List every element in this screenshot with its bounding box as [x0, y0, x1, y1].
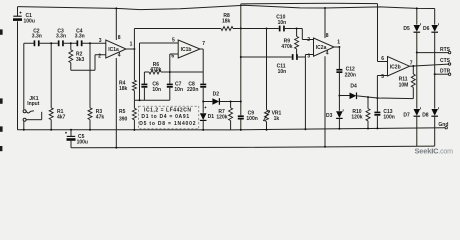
- wire RTS: [417, 52, 449, 54]
- svg-text:10n: 10n: [278, 20, 287, 26]
- junction R10 bottom: [367, 128, 369, 130]
- junction R1 bottom: [50, 129, 52, 131]
- junction VR1 tap: [266, 28, 268, 30]
- junction R3 bottom: [89, 129, 91, 131]
- svg-text:3: 3: [307, 53, 310, 59]
- wire jack to signal line: [23, 43, 25, 109]
- wire diode pump: [203, 101, 241, 103]
- wire IC1a pin4 to negative rail: [115, 58, 117, 148]
- svg-text:D5 to D8 = 1N4002: D5 to D8 = 1N4002: [139, 121, 196, 127]
- jack JK1: [23, 110, 42, 122]
- svg-text:D2: D2: [213, 92, 220, 98]
- preset VR1: [263, 29, 270, 130]
- resistor R4: [132, 29, 136, 101]
- wire IC1a pin8 to rail: [115, 8, 117, 40]
- wire jack sleeve to ground: [23, 121, 25, 129]
- svg-text:7: 7: [410, 60, 413, 66]
- svg-text:DTR: DTR: [440, 68, 451, 74]
- wire DTR: [435, 73, 449, 75]
- svg-text:120k: 120k: [351, 115, 362, 121]
- diode D7: [414, 107, 421, 146]
- junction R3 top: [89, 42, 91, 44]
- svg-text:5: 5: [172, 37, 175, 43]
- junction D5 rail: [416, 7, 418, 9]
- svg-text:120k: 120k: [216, 115, 227, 121]
- svg-text:1: 1: [130, 41, 133, 47]
- diode D1: [200, 102, 207, 130]
- junction R2 top: [70, 42, 72, 44]
- capacitor C9: [238, 115, 244, 129]
- wire detector: [339, 96, 413, 99]
- wire D5 D7 link: [416, 53, 418, 109]
- junction C13 bottom: [376, 127, 378, 129]
- wire IC2b pin5: [377, 76, 387, 99]
- junction R5 bottom: [133, 129, 135, 131]
- svg-text:4k7: 4k7: [57, 115, 66, 121]
- wire ground rail 0V: [18, 128, 446, 130]
- terminal DTR: [448, 73, 450, 75]
- svg-text:2: 2: [307, 37, 310, 43]
- capacitor C6: [141, 72, 147, 100]
- wire IC1b output down: [200, 49, 203, 72]
- wire left supply branch with C1: [17, 7, 19, 130]
- junction C7 R6 node: [169, 71, 171, 73]
- wire IC2b pin6: [378, 4, 388, 62]
- wire reference line: [240, 4, 242, 116]
- capacitor C4: [77, 40, 83, 46]
- svg-text:D7: D7: [403, 113, 410, 119]
- capacitor C2: [34, 40, 40, 46]
- svg-text:D3: D3: [326, 113, 333, 119]
- junction pump right: [240, 101, 242, 103]
- svg-text:3.3n: 3.3n: [75, 34, 85, 40]
- wire to IC2a pin2: [302, 29, 313, 40]
- wire C11 branch: [241, 56, 306, 58]
- wire IC2b output CTS: [410, 64, 449, 66]
- junction C13 top: [376, 97, 378, 99]
- svg-text:10n: 10n: [278, 69, 287, 75]
- resistor R11: [411, 66, 415, 99]
- svg-text:3.3n: 3.3n: [56, 34, 66, 40]
- junction D3 node: [338, 95, 340, 97]
- svg-text:100u: 100u: [24, 19, 35, 25]
- junction reference line: [240, 27, 242, 29]
- svg-text:3: 3: [99, 38, 102, 44]
- wire IC1b pin6: [170, 54, 178, 72]
- capacitor C5: [65, 130, 76, 148]
- junction IC2a pin8 rail: [324, 7, 326, 9]
- svg-text:6: 6: [381, 56, 384, 62]
- junction pump left: [202, 101, 204, 103]
- svg-text:2: 2: [98, 54, 101, 60]
- svg-text:470k: 470k: [281, 44, 292, 50]
- junction IC2a output: [338, 46, 340, 48]
- junction C11 left: [240, 56, 242, 58]
- terminal Gnd: [445, 127, 447, 129]
- resistor R6: [144, 70, 203, 74]
- svg-text:SeekIC.com: SeekIC.com: [415, 147, 454, 156]
- svg-text:IC1,2 = LF442CN: IC1,2 = LF442CN: [144, 108, 192, 114]
- junction C5 top: [70, 129, 72, 131]
- resistor R8: [134, 27, 278, 31]
- junction DTR: [434, 73, 436, 75]
- resistor R9: [295, 29, 299, 58]
- junction R11 top: [412, 65, 414, 67]
- op-amp IC2b: [388, 57, 410, 77]
- note box: [139, 106, 199, 129]
- junction VR1 bottom: [266, 129, 268, 131]
- svg-text:47k: 47k: [96, 115, 105, 121]
- svg-text:470k: 470k: [150, 67, 161, 73]
- capacitor C3: [58, 40, 64, 46]
- capacitor C10: [279, 26, 303, 32]
- svg-text:18k: 18k: [119, 86, 128, 92]
- svg-text:Gnd: Gnd: [438, 122, 448, 128]
- junction jack-ground: [23, 129, 25, 131]
- svg-text:D1 to D4 = 0A91: D1 to D4 = 0A91: [141, 114, 189, 120]
- wire R4 R5 node: [134, 99, 169, 101]
- wire IC2a pin4 to negative rail: [324, 56, 326, 147]
- svg-text:10n: 10n: [152, 87, 161, 93]
- diode D8: [431, 107, 438, 146]
- resistor R10: [366, 97, 370, 128]
- svg-text:100u: 100u: [77, 140, 88, 146]
- svg-text:100n: 100n: [246, 116, 257, 122]
- diode D2: [212, 98, 219, 105]
- svg-text:18k: 18k: [222, 19, 231, 25]
- diode D5: [414, 8, 421, 52]
- diode D3: [336, 96, 343, 129]
- svg-text:IC1b: IC1b: [181, 47, 192, 53]
- svg-text:D1: D1: [208, 114, 215, 120]
- capacitor C7: [167, 72, 173, 100]
- svg-text:6: 6: [171, 54, 174, 60]
- svg-text:1k: 1k: [274, 116, 280, 122]
- svg-text:IC2b: IC2b: [390, 65, 401, 71]
- capacitor C8: [200, 72, 206, 102]
- junction IC2a pin4 rail: [324, 146, 326, 148]
- svg-text:4: 4: [118, 52, 121, 58]
- junction R7 top: [230, 101, 232, 103]
- svg-text:D6: D6: [423, 26, 430, 32]
- svg-text:1: 1: [337, 39, 340, 45]
- junction R1 top: [50, 42, 52, 44]
- capacitor C1: [13, 12, 22, 21]
- scan artifacts: [0, 29, 3, 151]
- junction R9 top: [296, 28, 298, 30]
- wire negative rail: [71, 146, 435, 148]
- capacitor C11: [292, 54, 298, 60]
- svg-text:4: 4: [326, 50, 329, 56]
- wire top supply rail: [18, 5, 435, 9]
- diode D6: [431, 9, 438, 75]
- svg-text:100n: 100n: [383, 115, 394, 121]
- junction C9 bottom: [240, 129, 242, 131]
- svg-text:8: 8: [118, 35, 121, 41]
- svg-text:RTS: RTS: [440, 47, 451, 53]
- svg-text:R5: R5: [119, 109, 126, 115]
- svg-text:8: 8: [326, 33, 329, 39]
- wire IC2a pin3 ground: [305, 55, 313, 130]
- junction pin3 ground: [304, 128, 306, 130]
- op-amp IC1b: [178, 40, 200, 58]
- wire IC1b pin5 line: [140, 43, 179, 100]
- capacitor C12: [336, 47, 342, 96]
- wire D6 D8 link: [434, 74, 436, 108]
- wire input signal line: [24, 42, 106, 44]
- svg-text:220n: 220n: [345, 72, 356, 78]
- svg-text:3k3: 3k3: [76, 57, 85, 63]
- terminal RTS: [448, 51, 450, 53]
- junction pin5 node: [139, 99, 141, 101]
- svg-text:220n: 220n: [187, 87, 198, 93]
- svg-text:7: 7: [202, 41, 205, 47]
- junction pin4 negative rail: [115, 147, 117, 149]
- junction R10 top: [367, 96, 369, 98]
- junction RTS: [416, 52, 418, 54]
- wire IC2a output: [334, 46, 339, 48]
- svg-text:CTS: CTS: [440, 58, 451, 64]
- svg-text:10n: 10n: [174, 87, 183, 93]
- resistor R7: [229, 102, 233, 130]
- svg-text:3.3n: 3.3n: [32, 34, 42, 40]
- resistor R5: [132, 100, 136, 130]
- junction D3 bottom: [338, 128, 340, 130]
- junction pin8 rail: [115, 7, 117, 9]
- resistor R1: [49, 43, 53, 130]
- wire IC1a output: [126, 48, 134, 50]
- svg-text:390: 390: [119, 117, 128, 123]
- svg-text:D4: D4: [350, 84, 357, 90]
- wire R2 to IC1a pin2: [71, 55, 106, 71]
- op-amp IC1a: [106, 40, 126, 58]
- wire IC2a pin8 to rail: [324, 8, 326, 38]
- diode D4: [350, 93, 357, 100]
- junction D1 bottom: [202, 129, 204, 131]
- wire top link to IC2b pin6: [241, 2, 378, 5]
- junction IC1a output: [133, 48, 135, 50]
- op-amp IC2a: [314, 38, 335, 56]
- svg-text:D8: D8: [422, 113, 429, 119]
- svg-text:10M: 10M: [399, 82, 409, 88]
- svg-text:Input: Input: [27, 101, 40, 107]
- resistor R3: [88, 43, 92, 130]
- resistor R2: [69, 43, 73, 70]
- terminal CTS: [448, 63, 450, 65]
- capacitor C13: [374, 98, 380, 128]
- svg-text:D5: D5: [403, 26, 410, 32]
- svg-text:5: 5: [381, 74, 384, 80]
